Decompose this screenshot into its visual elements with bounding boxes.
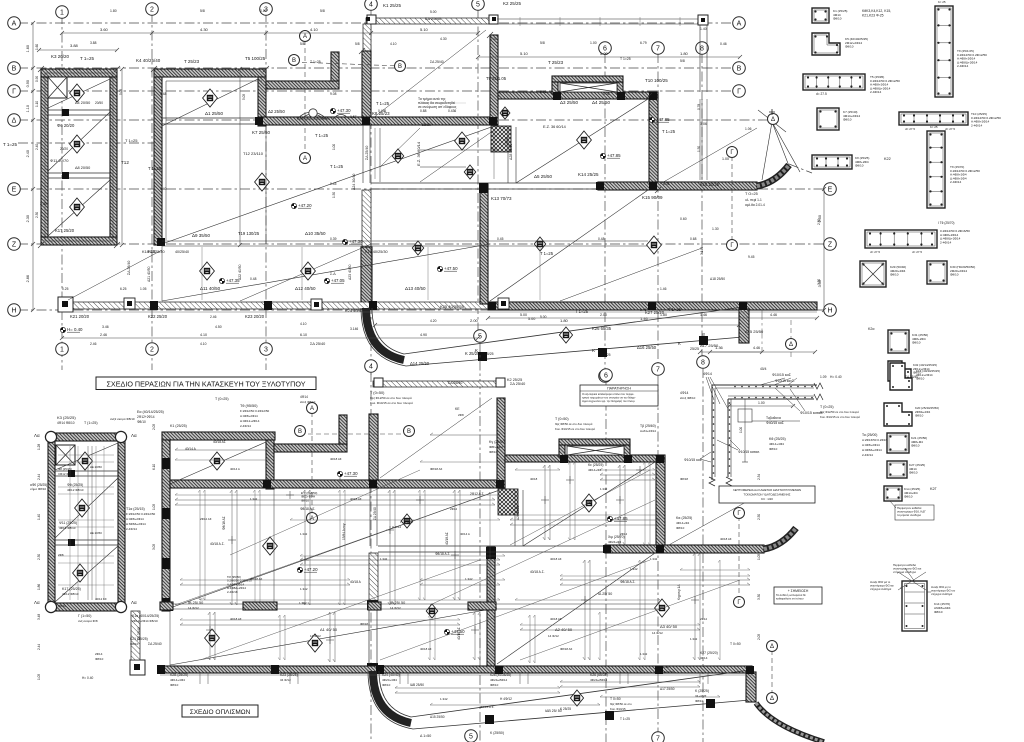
svg-text:25/50: 25/50 xyxy=(505,137,509,145)
svg-text:2-4Φ/14: 2-4Φ/14 xyxy=(862,453,873,457)
svg-text:1.06: 1.06 xyxy=(700,122,707,126)
svg-text:+47.30: +47.30 xyxy=(337,108,351,113)
grid bubble Α xyxy=(300,153,311,164)
svg-text:Φ10/15 καΣ: Φ10/15 καΣ xyxy=(684,458,702,462)
svg-text:ΚΕ: ΚΕ xyxy=(455,407,460,411)
svg-text:Κγ (25/50): Κγ (25/50) xyxy=(489,440,506,444)
svg-text:1.05: 1.05 xyxy=(757,554,761,560)
svg-text:1.05: 1.05 xyxy=(140,287,147,291)
column section T5 xyxy=(803,74,865,90)
svg-text:1.48: 1.48 xyxy=(160,92,167,96)
b beam E dark xyxy=(605,545,764,553)
svg-text:4Φ14+Φ4: 4Φ14+Φ4 xyxy=(588,468,602,472)
junction block xyxy=(649,92,657,100)
extra rebar density bottom plan xyxy=(175,494,500,496)
grid bubble 5 xyxy=(465,730,478,742)
svg-text:1.05: 1.05 xyxy=(152,504,156,510)
svg-text:40/18 ΑΣ: 40/18 ΑΣ xyxy=(550,557,562,561)
svg-text:Α: Α xyxy=(303,156,307,162)
svg-text:ΣΔ 25/40: ΣΔ 25/40 xyxy=(425,16,442,21)
svg-text:+47.85: +47.85 xyxy=(614,516,628,521)
svg-text:0.48: 0.48 xyxy=(598,237,605,241)
grid bubble 1 xyxy=(56,6,69,19)
svg-text:1.50: 1.50 xyxy=(697,146,701,152)
b X-room left xyxy=(559,445,565,457)
svg-text:Τ5 100/25: Τ5 100/25 xyxy=(245,56,266,61)
column section K29 xyxy=(860,261,886,287)
svg-text:Κ19 40/25/30: Κ19 40/25/30 xyxy=(365,250,388,254)
beam D1 dark (K7-K8) xyxy=(259,117,497,125)
broomB right wall xyxy=(266,440,274,489)
wall column block xyxy=(162,558,170,569)
svg-text:Κ (25/50): Κ (25/50) xyxy=(490,731,504,735)
svg-text:Ι Τθ (25/70): Ι Τθ (25/70) xyxy=(938,221,954,225)
svg-text:40/14 Α: 40/14 Α xyxy=(460,532,470,536)
column on beam H xyxy=(150,301,158,310)
svg-text:34+ΑΜΣ: 34+ΑΜΣ xyxy=(695,694,707,698)
svg-text:2ανξ Φ8/10: 2ανξ Φ8/10 xyxy=(300,400,316,404)
column section K32 L xyxy=(888,361,911,381)
svg-text:2-4Φ/18: 2-4Φ/18 xyxy=(227,590,238,594)
svg-text:Κθ (25/25): Κθ (25/25) xyxy=(769,437,786,441)
svg-text:1: 1 xyxy=(60,10,64,17)
svg-text:1.46: 1.46 xyxy=(640,308,647,312)
svg-text:Η= 0.40: Η= 0.40 xyxy=(830,375,842,379)
svg-text:4.10: 4.10 xyxy=(200,342,207,346)
grid bubble 6 xyxy=(600,369,613,382)
svg-text:Δ17 25/50: Δ17 25/50 xyxy=(700,343,719,348)
svg-text:θψ( Φ8/50 σε στο: θψ( Φ8/50 σε στο xyxy=(610,702,632,706)
junction block xyxy=(739,302,747,310)
grid bubble Ζ xyxy=(824,238,837,251)
grid bubble 5 xyxy=(474,330,487,343)
extra verticals Z-H band xyxy=(201,247,203,300)
svg-text:Δ8 20/50: Δ8 20/50 xyxy=(75,166,90,170)
svg-text:d= 27.5: d= 27.5 xyxy=(945,127,955,131)
grid bubble 4 xyxy=(365,0,378,10)
grid bubble Γ xyxy=(727,240,738,251)
beam E dark xyxy=(598,182,757,190)
beam H dark part xyxy=(488,302,817,310)
b beam H dark xyxy=(160,666,752,673)
column section T9 xyxy=(927,131,945,208)
svg-text:2.34: 2.34 xyxy=(757,474,761,480)
svg-text:0.436: 0.436 xyxy=(448,109,456,113)
junction block xyxy=(649,182,657,190)
footing strip vertical xyxy=(363,24,371,51)
slab diamond xyxy=(301,262,316,280)
svg-text:1.342: 1.342 xyxy=(380,557,388,561)
slab edge lines xyxy=(507,127,509,183)
junction block xyxy=(617,92,625,100)
room B right wall xyxy=(258,77,266,126)
short tick crossbars bottom plan xyxy=(228,539,236,541)
svg-text:1.342: 1.342 xyxy=(300,532,308,536)
svg-text:Κολ. Φ10/15 σε στο δυο πλευρά: Κολ. Φ10/15 σε στο δυο πλευρά xyxy=(370,401,413,405)
X-room left wall xyxy=(552,82,558,94)
svg-text:Β: Β xyxy=(292,58,296,64)
column xyxy=(605,711,614,720)
b column on beam H xyxy=(271,665,279,674)
svg-text:Δ: Δ xyxy=(770,696,774,702)
svg-text:θψ( Φ8/50 σε στο δυο πλευρά: θψ( Φ8/50 σε στο δυο πλευρά xyxy=(555,422,593,426)
column on wall2 xyxy=(62,172,69,179)
svg-text:καθαιρεθούν επί τόπου: καθαιρεθούν επί τόπου xyxy=(776,597,804,601)
grid bubble 1 xyxy=(56,343,69,356)
room K13 diagonal xyxy=(516,99,648,183)
svg-text:Α:4Φ8+2Φ14: Α:4Φ8+2Φ14 xyxy=(862,443,880,447)
tall room top wall xyxy=(41,69,117,77)
svg-text:4.46: 4.46 xyxy=(753,346,760,350)
grid bubble Γ xyxy=(8,85,21,98)
svg-text:4Φ20+4Φ4: 4Φ20+4Φ4 xyxy=(382,678,397,682)
svg-text:Λα: Λα xyxy=(131,433,137,438)
svg-text:1.05: 1.05 xyxy=(37,674,41,680)
b curved ramp xyxy=(373,671,411,723)
svg-text:4.90: 4.90 xyxy=(420,333,427,337)
dim ticks on top footing xyxy=(519,17,521,26)
svg-text:ΚΛ : 1/20: ΚΛ : 1/20 xyxy=(761,497,773,501)
slab diamond xyxy=(412,241,423,255)
svg-text:1.46: 1.46 xyxy=(700,313,707,317)
axes bottom plan xyxy=(605,382,607,742)
column xyxy=(706,699,715,708)
svg-text:Τ 1=25: Τ 1=25 xyxy=(330,164,344,169)
svg-text:Κ: Κ xyxy=(678,341,681,346)
svg-text:2.05: 2.05 xyxy=(152,424,156,430)
svg-text:1.342: 1.342 xyxy=(299,601,307,605)
svg-text:d= 27.5: d= 27.5 xyxy=(912,250,922,254)
svg-text:1.80: 1.80 xyxy=(560,318,569,323)
svg-text:0.48: 0.48 xyxy=(250,277,257,281)
svg-text:25/50: 25/50 xyxy=(422,123,431,127)
svg-text:Γ (1=50): Γ (1=50) xyxy=(78,614,91,618)
svg-text:2-4Φ/14: 2-4Φ/14 xyxy=(240,424,251,428)
stair column X-box xyxy=(48,77,67,98)
svg-text:2ανξ Φ8/10: 2ανξ Φ8/10 xyxy=(680,396,696,400)
svg-text:7: 7 xyxy=(656,367,660,374)
svg-text:Τ 1=25: Τ 1=25 xyxy=(376,101,390,106)
svg-text:1.342: 1.342 xyxy=(640,652,648,656)
svg-text:Κηρονγ 1Δ: Κηρονγ 1Δ xyxy=(677,584,681,600)
svg-text:1.40: 1.40 xyxy=(160,187,167,191)
svg-text:Φ8/18 Α.Σ.: Φ8/18 Α.Σ. xyxy=(435,552,450,556)
svg-text:Φ8/10: Φ8/10 xyxy=(909,471,918,475)
svg-text:Β: Β xyxy=(407,429,411,435)
svg-text:14 Φ/12: 14 Φ/12 xyxy=(188,606,199,610)
svg-text:Ε: Ε xyxy=(12,187,17,194)
b wall axis7 xyxy=(656,459,665,548)
svg-text:Ανοιξε Φθ4 για το: Ανοιξε Φθ4 για το xyxy=(870,580,891,584)
svg-text:2-4Φ/14: 2-4Φ/14 xyxy=(940,240,952,244)
junction block xyxy=(746,666,754,674)
svg-text:Β: Β xyxy=(298,429,302,435)
svg-text:Τ 25/23: Τ 25/23 xyxy=(548,60,564,65)
level mark xyxy=(337,471,358,477)
svg-text:5.00: 5.00 xyxy=(540,315,547,319)
b footing top xyxy=(373,381,504,387)
svg-text:2Φ14: 2Φ14 xyxy=(95,652,103,656)
beam B-Gamma xyxy=(498,92,658,99)
svg-text:40/18 Α.Σ.: 40/18 Α.Σ. xyxy=(210,542,225,546)
svg-text:Τ 1=25: Τ 1=25 xyxy=(148,166,162,171)
svg-text:Κολ. Φ10/15 σε στο δυο πλευρά: Κολ. Φ10/15 σε στο δυο πλευρά xyxy=(555,427,595,431)
svg-text:25/25: 25/25 xyxy=(690,347,699,351)
svg-text:9.45: 9.45 xyxy=(748,255,755,259)
svg-text:Β: Β xyxy=(12,66,17,73)
column section K21d xyxy=(887,433,909,453)
wall axis5 xyxy=(490,35,498,125)
svg-text:Τ 1=25: Τ 1=25 xyxy=(575,309,589,314)
svg-text:Κολ. Φ10/15: Κολ. Φ10/15 xyxy=(610,707,626,711)
wall axis7 right xyxy=(649,96,658,185)
strip4 room diagonal top plan xyxy=(373,30,486,118)
svg-text:ΣΔ 25/40: ΣΔ 25/40 xyxy=(373,507,377,520)
section Gamma top xyxy=(731,156,733,242)
wall column block xyxy=(162,458,170,469)
svg-text:4.10: 4.10 xyxy=(310,27,319,32)
svg-text:2.30: 2.30 xyxy=(37,554,41,560)
svg-text:ΛΦ12 Φ8/10: ΛΦ12 Φ8/10 xyxy=(58,472,75,476)
junction block xyxy=(655,666,663,674)
svg-text:5/8: 5/8 xyxy=(200,9,205,13)
svg-text:7: 7 xyxy=(656,46,660,53)
level mark xyxy=(60,327,83,333)
svg-text:14 Φ/12: 14 Φ/12 xyxy=(390,606,401,610)
svg-text:Φ8/10: Φ8/10 xyxy=(130,642,139,646)
svg-text:στήριγμα ανάδηρα: στήριγμα ανάδηρα xyxy=(931,592,953,596)
svg-text:Η= 0.40: Η= 0.40 xyxy=(82,676,93,680)
svg-text:Γ: Γ xyxy=(737,89,741,96)
b X-room right xyxy=(624,445,630,457)
title box formwork plan xyxy=(96,377,316,390)
tick pairs below beam Hb xyxy=(199,673,201,684)
svg-text:Δ:4Φ8Δ+2Φ14: Δ:4Φ8Δ+2Φ14 xyxy=(862,448,882,452)
svg-text:Εα (40/14/25/25): Εα (40/14/25/25) xyxy=(137,410,164,414)
b beam Gamma xyxy=(505,455,665,462)
column xyxy=(68,470,75,477)
svg-text:2.44: 2.44 xyxy=(37,474,41,480)
svg-text:3: 3 xyxy=(264,347,268,354)
junction block xyxy=(656,455,664,463)
dims below beam H xyxy=(375,324,739,326)
svg-text:Ε: Ε xyxy=(828,187,833,194)
svg-text:Δ22 40/50: Δ22 40/50 xyxy=(238,264,242,280)
column K on ramp xyxy=(478,352,487,361)
b-beam D1 dark full xyxy=(170,480,505,488)
K20 L-shape xyxy=(884,403,912,426)
svg-text:Κ25 40/35/35: Κ25 40/35/35 xyxy=(440,304,465,309)
grid bubble Β xyxy=(8,62,21,75)
section A-A bottom xyxy=(311,412,313,515)
svg-text:Φ8/10: Φ8/10 xyxy=(912,341,921,345)
svg-text:Φ8/10: Φ8/10 xyxy=(890,273,899,277)
svg-text:Κ2 25/25: Κ2 25/25 xyxy=(503,1,522,6)
svg-text:25/25: 25/25 xyxy=(602,353,611,357)
svg-text:Α: Α xyxy=(310,406,314,412)
svg-text:2Φ14: 2Φ14 xyxy=(620,532,628,536)
svg-text:d= 27.5: d= 27.5 xyxy=(816,92,827,96)
svg-text:5.00: 5.00 xyxy=(430,10,437,14)
grid bubble Β xyxy=(733,62,746,75)
slab diamond xyxy=(577,131,592,149)
b footing strip v xyxy=(369,553,378,610)
svg-text:Δ2 25/50: Δ2 25/50 xyxy=(268,109,285,114)
fan lines from pole xyxy=(772,122,789,166)
zbeam seg1 xyxy=(160,602,173,610)
grid bubble 8 xyxy=(697,356,710,369)
svg-text:Δ 1=50: Δ 1=50 xyxy=(420,734,431,738)
svg-text:4Φ2Δ+ΒΦ14: 4Φ2Δ+ΒΦ14 xyxy=(590,678,608,682)
svg-text:7: 7 xyxy=(656,736,660,742)
slab diamond xyxy=(210,452,225,470)
svg-text:Τ 1=25: Τ 1=25 xyxy=(662,129,676,134)
svg-text:40/18 ΑΣ: 40/18 ΑΣ xyxy=(457,627,461,640)
b wall axis4 xyxy=(369,414,378,480)
tall room right wall xyxy=(110,77,117,237)
footing squares on beam H xyxy=(124,298,135,309)
svg-text:Φ8/10: Φ8/10 xyxy=(170,683,179,687)
svg-text:1.00: 1.00 xyxy=(590,41,597,45)
svg-text:2.30: 2.30 xyxy=(35,212,39,218)
svg-text:Τ 0=50: Τ 0=50 xyxy=(730,642,741,646)
svg-text:6.79: 6.79 xyxy=(640,41,647,45)
svg-text:Η 4Φ/12: Η 4Φ/12 xyxy=(500,697,512,701)
svg-text:Κ1 25/25: Κ1 25/25 xyxy=(383,3,402,8)
column on wall1 xyxy=(62,109,69,116)
beam D1 thin part xyxy=(162,117,259,119)
zbeam seg4 xyxy=(468,602,496,610)
svg-text:ΣΧΕΔΙΟ ΠΕΡΑΣΙΩΝ ΓΙΑ ΤΗΝ ΚΑ: ΣΧΕΔΙΟ ΠΕΡΑΣΙΩΝ ΓΙΑ ΤΗΝ ΚΑΤΑΣΚΕΥΗ ΤΟΥ ΞΥ… xyxy=(106,380,305,389)
svg-text:Κ15 90/09: Κ15 90/09 xyxy=(642,195,663,200)
grid bubble Α xyxy=(307,403,318,414)
grid bubble Δ xyxy=(767,641,778,652)
svg-text:Τ 1=25: Τ 1=25 xyxy=(3,142,18,147)
svg-text:1.342: 1.342 xyxy=(650,557,658,561)
svg-text:0.25: 0.25 xyxy=(702,333,706,340)
svg-text:Κ24 40/40: Κ24 40/40 xyxy=(345,308,364,313)
grid axes top plan xyxy=(61,14,63,370)
svg-text:4Φ14: 4Φ14 xyxy=(680,391,688,395)
slab diamond xyxy=(655,599,670,617)
zbeam seg3 xyxy=(368,602,381,610)
svg-text:Δ4 25/50: Δ4 25/50 xyxy=(592,100,611,105)
svg-text:Δ2 40/ 50: Δ2 40/ 50 xyxy=(555,627,573,632)
svg-text:Φ8/10: Φ8/10 xyxy=(676,526,685,530)
svg-text:Κ16 20/25: Κ16 20/25 xyxy=(700,182,720,187)
svg-text:Κ2α: Κ2α xyxy=(868,327,874,331)
svg-text:2.46: 2.46 xyxy=(90,342,97,346)
svg-text:40/18 ΑΣ: 40/18 ΑΣ xyxy=(330,457,342,461)
column on beam H xyxy=(264,301,272,310)
svg-text:4Φ14: 4Φ14 xyxy=(703,372,712,376)
slab diamond xyxy=(392,149,403,163)
svg-text:Λα: Λα xyxy=(34,600,40,605)
svg-text:4.10: 4.10 xyxy=(200,333,207,337)
svg-text:2Φ8: 2Φ8 xyxy=(58,553,64,557)
svg-text:Δ: Δ xyxy=(770,644,774,650)
svg-text:Φ8/10: Φ8/10 xyxy=(769,447,778,451)
svg-text:0.45: 0.45 xyxy=(330,182,337,186)
junction block xyxy=(656,545,664,553)
junction block xyxy=(255,117,263,125)
note box SIMEIOSI xyxy=(774,587,822,604)
column section T8 xyxy=(865,230,937,248)
E.Z. room xyxy=(379,128,381,182)
junction block xyxy=(596,182,604,190)
svg-text:8: 8 xyxy=(701,360,705,367)
slab diamond xyxy=(308,634,323,652)
svg-text:Δ3 25/50: Δ3 25/50 xyxy=(560,100,579,105)
svg-text:στήριγμα ανάδηρα: στήριγμα ανάδηρα xyxy=(870,587,892,591)
svg-text:b= 25: b= 25 xyxy=(930,125,938,129)
column section K28 xyxy=(884,486,902,501)
svg-text:Τ 1=25: Τ 1=25 xyxy=(540,251,554,256)
svg-text:αγμα εύχρωστου φρ. την διαγραφ: αγμα εύχρωστου φρ. την διαγραφή του πλευ… xyxy=(582,399,636,403)
svg-text:+47.50: +47.50 xyxy=(444,266,458,271)
svg-text:Κ7 25/50: Κ7 25/50 xyxy=(252,130,271,135)
svg-text:Δ1 25/50: Δ1 25/50 xyxy=(205,111,224,116)
svg-text:1.06: 1.06 xyxy=(745,127,752,131)
svg-text:ΣΔ 25/40: ΣΔ 25/40 xyxy=(365,146,369,160)
svg-text:Κ: Κ xyxy=(592,348,595,353)
svg-text:Τα (25/00): Τα (25/00) xyxy=(862,433,877,437)
svg-text:αρλ.θα 2-01-4: αρλ.θα 2-01-4 xyxy=(745,203,765,207)
svg-text:Τ (0=25): Τ (0=25) xyxy=(820,405,834,409)
svg-text:1.86: 1.86 xyxy=(37,584,41,590)
svg-text:Φ8/10: Φ8/10 xyxy=(382,683,391,687)
svg-text:Κ23 20/20: Κ23 20/20 xyxy=(245,314,265,319)
svg-text:Λα: Λα xyxy=(131,600,137,605)
svg-text:Λα: Λα xyxy=(34,433,40,438)
svg-text:Δ3 40/ 50: Δ3 40/ 50 xyxy=(660,624,678,629)
svg-text:Φ6 20/20: Φ6 20/20 xyxy=(57,123,75,128)
slab diamond xyxy=(200,262,215,280)
svg-text:Φ8/10: Φ8/10 xyxy=(904,495,913,499)
wall column block xyxy=(162,508,170,519)
svg-text:6.06: 6.06 xyxy=(663,182,670,186)
junction block xyxy=(488,302,496,310)
b wall block upper xyxy=(367,600,378,610)
wall to curve xyxy=(361,247,372,307)
svg-text:4Φ14: 4Φ14 xyxy=(300,395,308,399)
b column on beam H xyxy=(157,665,165,674)
grid bubble Β xyxy=(289,55,300,66)
svg-text:6: 6 xyxy=(604,373,608,380)
svg-text:1.30: 1.30 xyxy=(712,227,719,231)
svg-text:Ε.Ζ. 36 60/14: Ε.Ζ. 36 60/14 xyxy=(416,141,421,166)
svg-text:Φ8/18 Α.Σ.: Φ8/18 Α.Σ. xyxy=(620,580,635,584)
svg-text:5.00: 5.00 xyxy=(520,313,527,317)
svg-text:ΣΔ 25/40: ΣΔ 25/40 xyxy=(905,375,918,379)
tall room interior wall 2 xyxy=(48,172,110,174)
dimension chains top xyxy=(62,32,478,34)
svg-text:Κ17 25/20: Κ17 25/20 xyxy=(55,228,75,233)
slab edge x702 xyxy=(701,99,703,180)
svg-text:1.00: 1.00 xyxy=(722,157,729,161)
btall diagonals xyxy=(55,443,118,470)
svg-text:Τ 1=25: Τ 1=25 xyxy=(310,60,321,64)
svg-text:Κ3 20/20: Κ3 20/20 xyxy=(51,54,70,59)
slab diamond xyxy=(263,537,278,555)
svg-text:Τ 1=25: Τ 1=25 xyxy=(620,717,630,721)
svg-text:2Φ12+2Φ14 Φ8/10: 2Φ12+2Φ14 Φ8/10 xyxy=(132,619,158,623)
grid bubble 6 xyxy=(599,370,612,383)
svg-text:ΔΕ 20/50: ΔΕ 20/50 xyxy=(90,465,102,469)
svg-text:2.30: 2.30 xyxy=(40,202,47,206)
b column on beam H xyxy=(376,665,384,674)
svg-text:ΣΔ 25/40: ΣΔ 25/40 xyxy=(430,60,444,64)
